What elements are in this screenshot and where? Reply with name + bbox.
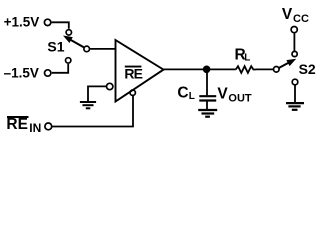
wire S2 throw 1 to VCC: [293, 33, 295, 51]
svg-text:V: V: [217, 86, 228, 103]
enable bubble bottom: [130, 90, 135, 95]
switch S2: [274, 51, 298, 84]
label RL: [235, 46, 251, 63]
label RE (active-low enable): [124, 66, 142, 82]
capacitor CL: [199, 96, 216, 100]
svg-text:+1.5V: +1.5V: [4, 15, 40, 30]
label REin: [6, 116, 41, 135]
svg-text:RE: RE: [124, 66, 142, 82]
svg-text:V: V: [282, 6, 293, 23]
op-amp U1 buffer: [116, 40, 164, 102]
wire CL to ground: [206, 102, 208, 110]
node VOUT junction: [203, 66, 211, 74]
svg-text:OUT: OUT: [228, 93, 252, 105]
wire S2 throw 2 to ground: [294, 86, 296, 103]
terminal REin: [45, 123, 52, 130]
resistor RL: [236, 66, 256, 73]
wire junction to CL: [206, 69, 208, 95]
enable bubble left: [107, 83, 113, 89]
wire ground to left bubble: [88, 86, 106, 101]
svg-text:–1.5V: –1.5V: [4, 66, 39, 81]
label VOUT: [217, 86, 252, 105]
label VCC: [282, 6, 309, 25]
terminal VCC: [291, 27, 297, 33]
svg-text:IN: IN: [29, 121, 41, 135]
wire +1.5V to S1 throw 1: [52, 22, 69, 29]
label CL: [177, 85, 195, 102]
svg-text:CC: CC: [293, 13, 309, 25]
ground below CL: [198, 110, 217, 117]
wire S1 pole to U1 input: [90, 48, 115, 50]
wire -1.5V to S1 throw 2: [52, 64, 68, 73]
ground below S2: [286, 103, 304, 110]
svg-text:S1: S1: [47, 39, 64, 55]
terminal +1.5V: [44, 19, 50, 25]
svg-text:RE: RE: [6, 116, 28, 133]
svg-text:C: C: [177, 85, 188, 102]
svg-text:L: L: [244, 53, 250, 64]
wire RL to S2 pole: [256, 68, 273, 70]
svg-text:L: L: [189, 91, 195, 102]
wire REin terminal to bottom bubble: [53, 96, 134, 127]
terminal -1.5V: [45, 70, 51, 76]
switch S1: [63, 30, 89, 63]
svg-text:S2: S2: [299, 61, 316, 77]
wire U1 output to RL: [163, 68, 236, 70]
ground left: [80, 102, 96, 108]
